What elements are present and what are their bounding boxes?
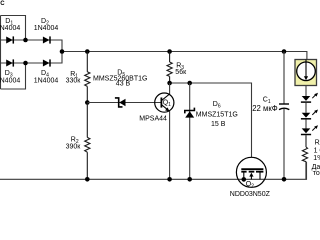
svg-text:22 мкФ: 22 мкФ — [252, 104, 278, 113]
junction Q2 source-rail — [242, 177, 247, 182]
diode D2 — [43, 36, 50, 43]
wire C1 top — [283, 52, 285, 104]
junction R1-R2-D5 node — [85, 100, 90, 105]
wire AC left edge — [0, 16, 2, 90]
junction rail-R3 — [167, 49, 172, 54]
svg-text:тока: тока — [313, 170, 320, 177]
LED1 — [301, 93, 318, 102]
diode D1 — [6, 36, 13, 43]
svg-text:1%: 1% — [313, 155, 320, 162]
svg-text:1 Ом: 1 Ом — [314, 148, 320, 155]
resistor R3 — [167, 52, 172, 84]
resistor R2 — [85, 103, 90, 180]
junction C1-rail — [282, 177, 287, 182]
junction R3-Q1 collector — [167, 81, 172, 86]
junction D3-D4 node — [23, 61, 28, 66]
diode D4 — [43, 59, 50, 66]
svg-text:330к: 330к — [66, 78, 82, 85]
wire D6 branch — [189, 83, 191, 179]
svg-text:C: C — [0, 1, 5, 7]
junction node-D6 — [187, 81, 192, 86]
svg-text:1N4004: 1N4004 — [34, 78, 59, 85]
svg-text:1N4004: 1N4004 — [0, 25, 20, 32]
wire LED1-LED2 — [305, 103, 307, 113]
zener D6 — [185, 108, 195, 118]
capacitor C1 — [279, 104, 289, 110]
junction bridge output — [60, 49, 65, 54]
transistor Q1 — [155, 93, 174, 112]
wire LED2-LED3 — [305, 120, 307, 129]
wire Q1 emitter — [169, 111, 171, 179]
svg-text:1N4004: 1N4004 — [34, 25, 59, 32]
wire D3-D4 row — [0, 52, 62, 64]
resistor R1 — [85, 52, 90, 103]
LED2 — [301, 110, 318, 119]
wire box to LED chain — [305, 86, 307, 97]
negative bottom rail — [0, 162, 307, 180]
wire D1-D2 row — [0, 40, 62, 52]
junction R2-rail — [85, 177, 90, 182]
current source box — [295, 60, 317, 86]
wire gate node line — [170, 83, 252, 157]
svg-text:43 B: 43 B — [116, 81, 131, 88]
svg-text:390к: 390к — [66, 143, 82, 150]
LED3 — [301, 125, 318, 134]
svg-text:56к: 56к — [175, 69, 187, 76]
junction rail-C1 — [282, 49, 287, 54]
wire Q1 collector — [169, 83, 171, 94]
svg-text:15 B: 15 B — [211, 121, 226, 128]
diode D3 — [6, 59, 13, 66]
svg-text:1N4004: 1N4004 — [0, 78, 20, 85]
zener D5 — [115, 98, 126, 107]
junction Q1 emitter-rail — [167, 177, 172, 182]
svg-text:NDD03N50Z: NDD03N50Z — [230, 191, 271, 198]
junction D6-rail — [187, 177, 192, 182]
junction rail-R1 — [85, 49, 90, 54]
wire AC top input loop — [1, 16, 26, 41]
transistor Q2 — [236, 157, 266, 187]
svg-text:MPSA44: MPSA44 — [139, 116, 167, 123]
wire AC bottom input loop — [1, 63, 26, 89]
resistor R4 current sense — [302, 135, 307, 179]
wire C1 bottom — [283, 109, 285, 180]
junction D1-D2 node — [23, 38, 28, 43]
wire positive rail — [62, 52, 307, 60]
svg-text:MMSZ15T1G: MMSZ15T1G — [196, 111, 238, 118]
wire D5 row (to Q1 base) — [87, 102, 161, 104]
